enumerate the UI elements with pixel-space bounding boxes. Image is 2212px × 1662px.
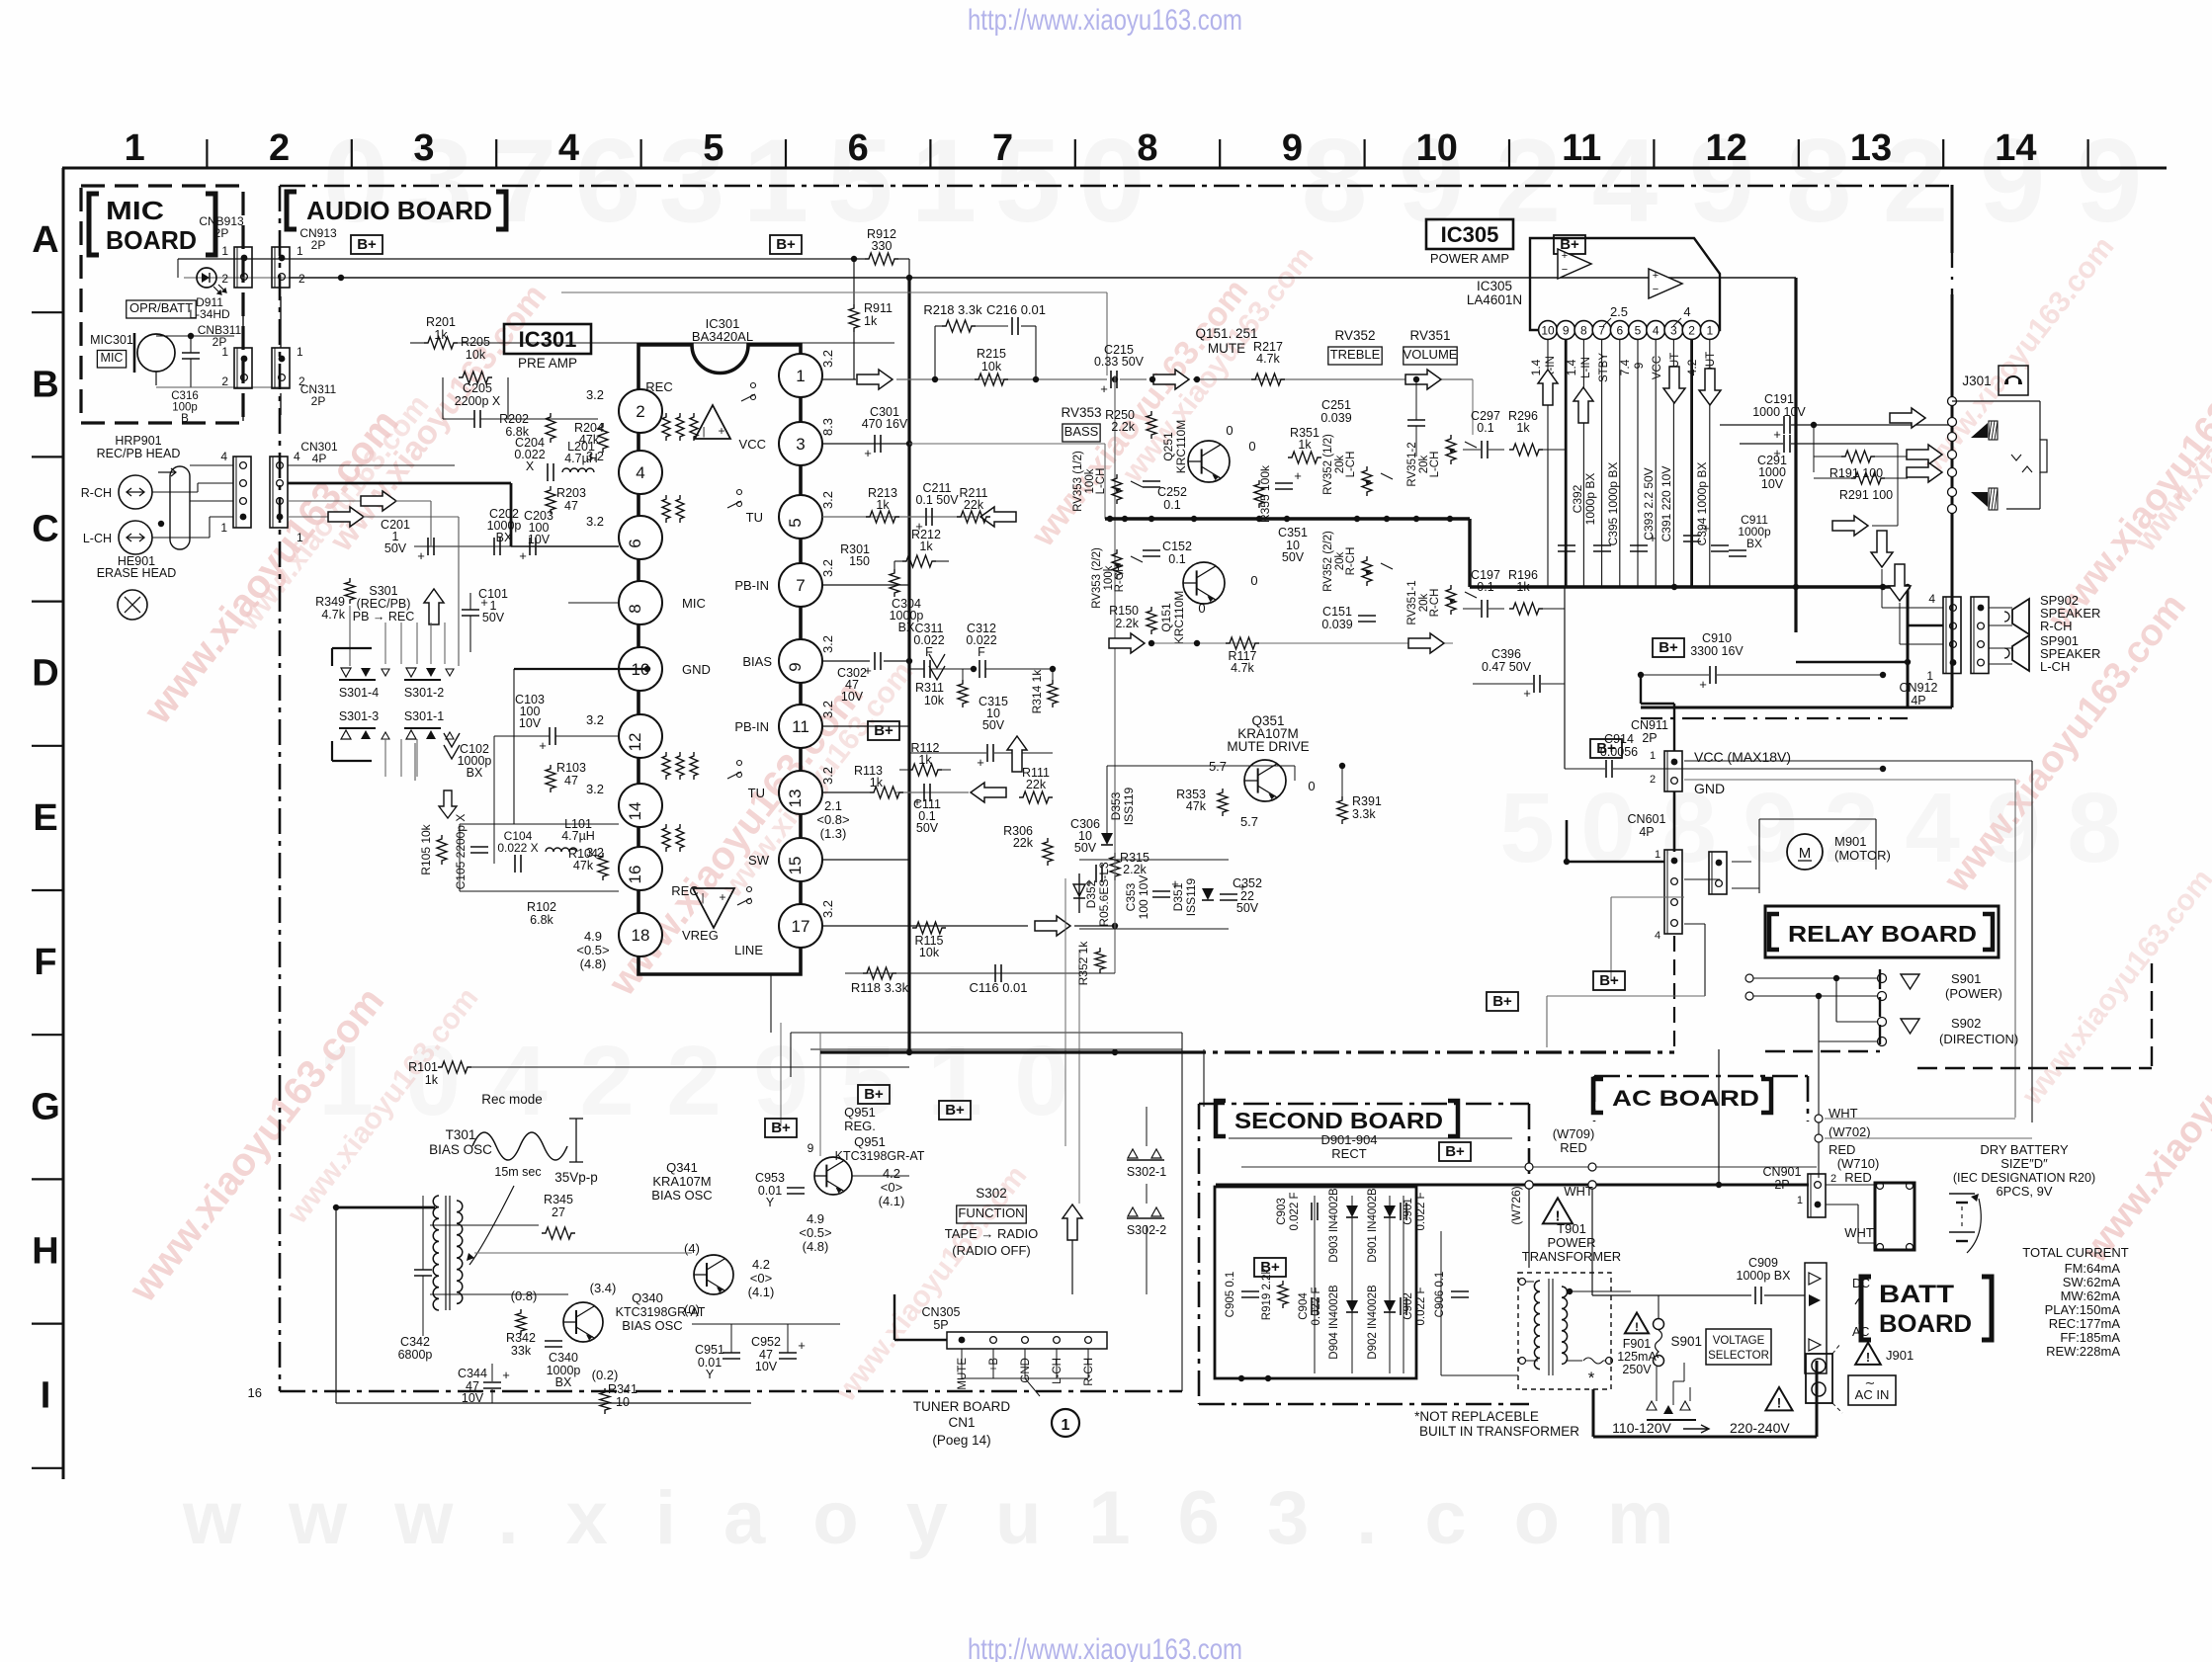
- svg-text:(RADIO OFF): (RADIO OFF): [952, 1243, 1030, 1258]
- svg-text:0.47 50V: 0.47 50V: [1482, 660, 1532, 674]
- wire cn601 rows: [1684, 878, 1720, 880]
- arrow pin10: [1538, 370, 1558, 405]
- svg-text:MUTE: MUTE: [1208, 341, 1245, 356]
- svg-text:3.2: 3.2: [586, 514, 604, 529]
- svg-text:2200p X: 2200p X: [455, 394, 501, 408]
- svg-text:<0.5>: <0.5>: [576, 943, 609, 957]
- svg-text:J301: J301: [1962, 374, 1991, 388]
- svg-text:2: 2: [1495, 115, 1562, 247]
- svg-text:*: *: [1588, 1369, 1595, 1387]
- warning triangle t901: [1543, 1198, 1573, 1223]
- arrow pin3: [1663, 367, 1685, 403]
- svg-text:PB-IN: PB-IN: [734, 578, 769, 593]
- svg-text:14: 14: [626, 802, 644, 821]
- svg-text:4: 4: [1653, 324, 1659, 338]
- svg-text:+: +: [539, 738, 547, 753]
- wire pin1 row: [822, 378, 856, 380]
- jack J301 contacts: [1948, 397, 1957, 406]
- svg-text:+: +: [913, 794, 921, 809]
- svg-text:R-CH: R-CH: [1429, 589, 1441, 618]
- watermark ghost digits middle right: [1499, 773, 2122, 883]
- connector CNB913: [234, 247, 252, 288]
- svg-text:R-CH: R-CH: [81, 486, 112, 500]
- IC301 internal switch contacts: [751, 383, 756, 388]
- svg-text:1: 1: [911, 115, 978, 247]
- svg-text:2.2k: 2.2k: [1115, 617, 1139, 630]
- svg-text:4.7µH: 4.7µH: [561, 829, 595, 843]
- svg-text:+: +: [1294, 468, 1302, 483]
- B+ label mid: [868, 721, 899, 740]
- svg-text:2.1: 2.1: [824, 798, 842, 813]
- svg-text:BX: BX: [898, 621, 915, 634]
- transistor Q251: [1188, 441, 1230, 482]
- dc ac selector: [1805, 1263, 1827, 1373]
- connector CN901: [1808, 1174, 1826, 1217]
- svg-text:C191: C191: [1764, 392, 1794, 406]
- svg-text:RV351-2: RV351-2: [1406, 442, 1418, 486]
- svg-text:F: F: [978, 645, 985, 659]
- B+ label row f: [858, 1085, 890, 1104]
- wire heavy feed: [1216, 1184, 1809, 1187]
- svg-text:REG.: REG.: [844, 1119, 876, 1133]
- svg-text:(DIRECTION): (DIRECTION): [1939, 1032, 2018, 1046]
- svg-text:4: 4: [294, 450, 300, 463]
- second board inner box: [1215, 1187, 1416, 1378]
- connector CN601: [1664, 850, 1682, 934]
- svg-text:−: −: [1562, 264, 1568, 276]
- svg-text:R105 10k: R105 10k: [419, 823, 433, 874]
- svg-text:C391 220 10V: C391 220 10V: [1659, 466, 1673, 542]
- svg-text:13: 13: [786, 789, 805, 808]
- svg-text:+: +: [1562, 250, 1568, 262]
- svg-text:D902 IN4002B: D902 IN4002B: [1367, 1285, 1379, 1360]
- svg-text:MIC: MIC: [101, 351, 124, 365]
- wire vcc: [1684, 760, 2032, 762]
- svg-text:2.2k: 2.2k: [1111, 420, 1135, 434]
- svg-text:SELECTOR: SELECTOR: [1708, 1350, 1769, 1362]
- wire: [1813, 425, 1815, 472]
- svg-text:50V: 50V: [1074, 841, 1097, 855]
- svg-text:MUTE DRIVE: MUTE DRIVE: [1227, 739, 1309, 754]
- svg-text:2P: 2P: [311, 238, 326, 252]
- svg-text:+: +: [719, 890, 725, 904]
- svg-text:S301-3: S301-3: [339, 709, 379, 723]
- LED D911: [197, 268, 216, 288]
- svg-text:RV353 (1/2): RV353 (1/2): [1072, 451, 1084, 512]
- wire cn601 dash column: [1673, 936, 1675, 1049]
- svg-text:CN1: CN1: [948, 1415, 975, 1430]
- svg-text:F: F: [34, 942, 56, 983]
- svg-text:Y: Y: [706, 1368, 715, 1381]
- svg-text:5.7: 5.7: [1240, 814, 1258, 829]
- svg-text:22k: 22k: [1026, 778, 1047, 791]
- wire: [791, 1032, 1182, 1034]
- svg-text:D901-904: D901-904: [1320, 1132, 1377, 1147]
- svg-text:14: 14: [1995, 127, 2036, 169]
- wire: [414, 545, 619, 547]
- svg-text:RV351-1: RV351-1: [1406, 580, 1418, 624]
- svg-text:R355 100k: R355 100k: [1258, 464, 1272, 523]
- wire: [730, 1324, 732, 1353]
- mic board title: [89, 194, 215, 255]
- bus junction dots: [1107, 516, 1113, 522]
- svg-text:4.7k: 4.7k: [1231, 661, 1254, 675]
- transistor Q151: [1183, 562, 1225, 604]
- wire: [1181, 1033, 1183, 1391]
- svg-text:R919 2.2k: R919 2.2k: [1261, 1269, 1273, 1321]
- op-amp IC301 A: [695, 405, 730, 439]
- wire head leads: [152, 491, 198, 493]
- svg-text:B+: B+: [1659, 639, 1678, 656]
- arrow up tall: [1063, 1205, 1082, 1240]
- svg-text:R314 1k: R314 1k: [1030, 669, 1044, 714]
- svg-text:R05.6ES-L3: R05.6ES-L3: [1097, 862, 1111, 927]
- svg-text:0.022 F: 0.022 F: [1289, 1193, 1301, 1231]
- svg-text:4.2: 4.2: [752, 1257, 770, 1272]
- transistor Q340: [563, 1302, 603, 1342]
- svg-text:10V: 10V: [1761, 477, 1784, 491]
- relay board label box: [1765, 906, 1999, 957]
- transformer T901: [1534, 1281, 1540, 1370]
- wire pin11 row: [822, 725, 909, 727]
- svg-text:L-CH: L-CH: [1095, 468, 1107, 495]
- svg-text:50V: 50V: [482, 611, 505, 624]
- svg-text:C906 0.1: C906 0.1: [1434, 1272, 1446, 1318]
- svg-text:3.2: 3.2: [820, 900, 835, 918]
- svg-text:2: 2: [1883, 115, 1949, 247]
- wire pin7 row: [822, 584, 909, 586]
- svg-text:D: D: [32, 653, 58, 695]
- op-amp IC305 A: [1558, 249, 1591, 279]
- B+ label 1: [351, 235, 383, 254]
- svg-text:22k: 22k: [1013, 836, 1034, 850]
- svg-text:REC: REC: [645, 379, 672, 394]
- svg-text:RV353 (2/2): RV353 (2/2): [1091, 547, 1103, 609]
- svg-text:3: 3: [796, 435, 805, 454]
- svg-text:2P: 2P: [1774, 1178, 1789, 1192]
- svg-text:MIC: MIC: [682, 596, 706, 611]
- svg-text:(4.8): (4.8): [580, 956, 607, 971]
- svg-text:6: 6: [848, 127, 869, 169]
- arrow: [1405, 370, 1441, 389]
- svg-text:47: 47: [564, 774, 578, 788]
- B+ label q951: [765, 1119, 797, 1137]
- svg-text:S901: S901: [1670, 1334, 1702, 1349]
- svg-text:C352: C352: [1233, 876, 1262, 890]
- svg-text:(REC/PB): (REC/PB): [357, 597, 411, 611]
- svg-text:BA3420AL: BA3420AL: [692, 329, 753, 344]
- svg-text:VREG: VREG: [682, 928, 719, 943]
- svg-text:BASS: BASS: [1064, 424, 1099, 439]
- wire: [242, 296, 244, 348]
- svg-text:4.9: 4.9: [584, 929, 602, 944]
- svg-text:10: 10: [1541, 324, 1555, 338]
- svg-text:1.4: 1.4: [1529, 359, 1543, 375]
- svg-text:4P: 4P: [1911, 694, 1925, 707]
- wire: [340, 259, 342, 278]
- wire cn301 out: [288, 482, 511, 485]
- dash link speaker: [1641, 717, 1908, 719]
- wire bottom exits: [770, 974, 772, 1033]
- svg-text:Y: Y: [766, 1196, 775, 1209]
- svg-text:(MOTOR): (MOTOR): [1834, 848, 1891, 863]
- svg-text:0: 0: [1248, 439, 1255, 454]
- svg-text:9: 9: [1563, 324, 1570, 338]
- svg-text:FM:64mA: FM:64mA: [2065, 1261, 2121, 1276]
- svg-text:S301: S301: [369, 584, 397, 598]
- svg-text:G: G: [31, 1086, 60, 1127]
- svg-text:C340: C340: [549, 1351, 578, 1365]
- resistor R191: [1841, 451, 1875, 462]
- wire mic feed: [567, 447, 569, 603]
- svg-text:33k: 33k: [511, 1344, 532, 1358]
- wire: [1107, 765, 1295, 767]
- svg-text:18: 18: [632, 926, 650, 945]
- svg-text:2: 2: [579, 1026, 635, 1136]
- svg-text:HRP901: HRP901: [115, 434, 161, 448]
- svg-text:R-CH: R-CH: [1345, 547, 1357, 576]
- svg-text:0: 0: [1308, 779, 1315, 793]
- svg-text:10V: 10V: [755, 1360, 778, 1373]
- svg-text:1: 1: [1650, 750, 1656, 762]
- op-amp IC301 B: [693, 888, 734, 928]
- svg-text:8: 8: [626, 604, 644, 613]
- svg-text:+: +: [480, 595, 488, 610]
- svg-text:Q151: Q151: [1159, 603, 1173, 632]
- wire: [178, 258, 865, 260]
- svg-text:B: B: [32, 364, 58, 405]
- svg-text:4: 4: [1928, 592, 1935, 606]
- wire pin13 row: [822, 791, 870, 793]
- wire pin9 row: [822, 660, 870, 662]
- svg-text:http://www.xiaoyu163.com: http://www.xiaoyu163.com: [968, 1633, 1242, 1662]
- svg-text:4: 4: [1655, 930, 1660, 942]
- svg-text:FUNCTION: FUNCTION: [958, 1205, 1024, 1220]
- svg-text:125mA: 125mA: [1617, 1350, 1657, 1364]
- svg-text:(W726): (W726): [1509, 1186, 1523, 1224]
- svg-text:+: +: [417, 548, 425, 563]
- svg-text:Q951: Q951: [854, 1134, 886, 1149]
- IC305 label box: [1426, 219, 1513, 249]
- svg-text:1k: 1k: [876, 498, 890, 512]
- connector CN301a: [233, 457, 251, 528]
- svg-text:D901 IN4002B: D901 IN4002B: [1367, 1188, 1379, 1263]
- mic board outline: [81, 186, 243, 423]
- svg-text:(1.3): (1.3): [820, 826, 847, 841]
- B+ label 2: [770, 235, 802, 254]
- wire second board: [1229, 1137, 1512, 1139]
- wire switch column: [349, 606, 351, 666]
- svg-text:X: X: [526, 459, 535, 473]
- svg-text:9: 9: [786, 662, 805, 671]
- svg-text:R291 100: R291 100: [1839, 488, 1893, 502]
- svg-text:VOLUME: VOLUME: [1404, 347, 1458, 362]
- svg-text:Rec mode: Rec mode: [481, 1092, 543, 1107]
- svg-text:C905 0.1: C905 0.1: [1225, 1272, 1236, 1318]
- batt board title: [1861, 1277, 1992, 1340]
- svg-text:AC BOARD: AC BOARD: [1612, 1086, 1759, 1111]
- svg-text:TAPE → RADIO: TAPE → RADIO: [945, 1226, 1038, 1241]
- svg-text:0.039: 0.039: [1321, 618, 1352, 631]
- wire pin15 row: [822, 859, 909, 861]
- svg-text:S301-4: S301-4: [339, 686, 379, 700]
- svg-text:(W702): (W702): [1829, 1124, 1871, 1139]
- wire speaker feeds: [1908, 624, 1943, 627]
- svg-text:35Vp-p: 35Vp-p: [554, 1170, 598, 1185]
- svg-text:A: A: [32, 219, 58, 261]
- svg-text:L-CH: L-CH: [1429, 452, 1441, 478]
- svg-text:C353: C353: [1124, 882, 1138, 911]
- switch S301-4: [341, 668, 351, 677]
- svg-text:2.5: 2.5: [1610, 304, 1628, 319]
- svg-text:BOARD: BOARD: [106, 225, 197, 255]
- svg-text:L-CH: L-CH: [1345, 452, 1357, 478]
- svg-text:SW: SW: [748, 853, 770, 868]
- svg-text:VOLTAGE: VOLTAGE: [1713, 1335, 1765, 1347]
- svg-text:KTC3198GR-AT: KTC3198GR-AT: [835, 1149, 925, 1163]
- wire batt col: [1826, 1185, 1875, 1191]
- svg-text:Q251: Q251: [1161, 432, 1175, 461]
- svg-text:0.022 F: 0.022 F: [1415, 1288, 1427, 1326]
- svg-text:AC: AC: [1852, 1325, 1869, 1339]
- svg-text:8: 8: [1302, 115, 1368, 247]
- svg-text:1000p BX: 1000p BX: [1583, 473, 1597, 526]
- svg-text:4.7k: 4.7k: [321, 608, 345, 622]
- svg-text:9: 9: [808, 1141, 814, 1155]
- svg-text:F: F: [925, 645, 933, 659]
- wire pin17 row: [822, 925, 1028, 927]
- svg-text:TREBLE: TREBLE: [1330, 347, 1381, 362]
- svg-text:R391: R391: [1352, 794, 1382, 808]
- wire B+ vertical right: [1794, 278, 1797, 632]
- svg-text:0: 0: [1580, 773, 1636, 883]
- wire ac heavy: [1593, 1436, 1817, 1439]
- svg-text:1: 1: [297, 244, 303, 258]
- B+ label inner: [1254, 1258, 1286, 1277]
- svg-text:S902: S902: [1951, 1016, 1981, 1031]
- svg-text:3.2: 3.2: [820, 491, 835, 509]
- svg-text:C903: C903: [1276, 1198, 1288, 1225]
- svg-text:C344: C344: [458, 1367, 487, 1380]
- svg-text:Q951: Q951: [844, 1105, 876, 1120]
- svg-text:2P: 2P: [214, 226, 229, 240]
- svg-text:C393 2.2 50V: C393 2.2 50V: [1642, 467, 1656, 540]
- ruler left with row letters A-I: [31, 168, 63, 1479]
- connector CN911: [1664, 751, 1682, 791]
- svg-text:4P: 4P: [1639, 825, 1654, 839]
- IC305 pins: [1539, 321, 1558, 340]
- svg-text:0.039: 0.039: [1320, 411, 1351, 425]
- switch S302-1: [1128, 1149, 1161, 1158]
- svg-text:1: 1: [297, 345, 303, 359]
- svg-text:+: +: [502, 1368, 510, 1382]
- svg-text:B+: B+: [776, 236, 796, 253]
- wire: [384, 623, 386, 664]
- svg-text:9: 9: [1282, 127, 1303, 169]
- svg-text:(0.8): (0.8): [511, 1288, 538, 1303]
- svg-text:50V: 50V: [1236, 901, 1259, 915]
- B+ label relay col2: [1487, 992, 1518, 1011]
- switch S302-2: [1128, 1207, 1161, 1216]
- svg-text:220-240V: 220-240V: [1730, 1420, 1790, 1436]
- svg-text:10k: 10k: [924, 694, 945, 707]
- label AC IN: [1848, 1375, 1896, 1405]
- svg-text:C: C: [32, 509, 58, 550]
- svg-text:POWER AMP: POWER AMP: [1430, 251, 1509, 266]
- svg-text:WHT: WHT: [1564, 1184, 1593, 1199]
- svg-text:3.2: 3.2: [820, 767, 835, 785]
- svg-text:STBY: STBY: [1598, 353, 1610, 382]
- svg-text:D352: D352: [1084, 879, 1098, 908]
- svg-text:6.8k: 6.8k: [530, 913, 553, 927]
- arrows to jack: [1890, 408, 1925, 428]
- svg-text:2: 2: [221, 374, 228, 388]
- svg-text:(4.1): (4.1): [879, 1194, 905, 1208]
- svg-text:0: 0: [1198, 601, 1205, 616]
- svg-text:CN601: CN601: [1628, 812, 1666, 826]
- svg-text:S302: S302: [976, 1186, 1007, 1201]
- svg-text:L-CH: L-CH: [83, 532, 112, 545]
- sine wave: [472, 1132, 567, 1160]
- svg-text:GND: GND: [682, 662, 711, 677]
- svg-text:+: +: [977, 755, 984, 770]
- svg-text:BX: BX: [1746, 537, 1762, 550]
- svg-text:C904: C904: [1298, 1292, 1310, 1320]
- svg-text:0.1: 0.1: [1477, 421, 1493, 435]
- svg-text:VCC: VCC: [1652, 356, 1663, 379]
- svg-text:1k: 1k: [918, 753, 932, 767]
- svg-text:1000p BX: 1000p BX: [1737, 1269, 1792, 1283]
- svg-text:SECOND BOARD: SECOND BOARD: [1234, 1108, 1443, 1133]
- svg-text:RED: RED: [1844, 1170, 1871, 1185]
- motor M901: [1787, 834, 1823, 870]
- svg-text:2: 2: [1688, 324, 1695, 338]
- svg-text:TU: TU: [746, 510, 763, 525]
- svg-text:3300 16V: 3300 16V: [1690, 644, 1744, 658]
- svg-text:AUDIO BOARD: AUDIO BOARD: [306, 196, 492, 225]
- svg-text:0: 0: [1226, 423, 1233, 438]
- arrow down right: [1889, 564, 1911, 601]
- svg-text:D353: D353: [1109, 791, 1123, 820]
- svg-text:BX: BX: [555, 1375, 572, 1389]
- svg-text:470 16V: 470 16V: [862, 417, 908, 431]
- svg-text:2P: 2P: [311, 394, 326, 408]
- svg-text:(W709): (W709): [1553, 1126, 1595, 1141]
- svg-text:R311: R311: [915, 681, 944, 695]
- battery pack: [1875, 1183, 1914, 1250]
- svg-text:4: 4: [492, 1026, 548, 1136]
- svg-text:B+: B+: [1492, 993, 1512, 1010]
- svg-text:1: 1: [1062, 1417, 1070, 1434]
- svg-text:C252: C252: [1157, 485, 1187, 499]
- svg-text:(IEC DESIGNATION R20): (IEC DESIGNATION R20): [1953, 1171, 2095, 1185]
- svg-text:4: 4: [1592, 115, 1659, 247]
- svg-text:0.1: 0.1: [1163, 498, 1180, 512]
- svg-text:RV352 (2/2): RV352 (2/2): [1322, 531, 1334, 592]
- svg-text:PB → REC: PB → REC: [353, 610, 415, 623]
- svg-text:+: +: [1653, 270, 1659, 282]
- svg-text:<0.8>: <0.8>: [816, 812, 849, 827]
- connector CN601b: [1709, 852, 1727, 894]
- connector CN912b: [1971, 597, 1989, 674]
- svg-text:C953: C953: [755, 1171, 785, 1185]
- wire B+ rail: [289, 277, 1796, 279]
- svg-text:1: 1: [221, 244, 228, 258]
- svg-text:C392: C392: [1571, 484, 1584, 513]
- svg-text:E: E: [33, 797, 57, 839]
- svg-text:47k: 47k: [1186, 799, 1207, 813]
- B+ label secondboard: [1439, 1142, 1471, 1161]
